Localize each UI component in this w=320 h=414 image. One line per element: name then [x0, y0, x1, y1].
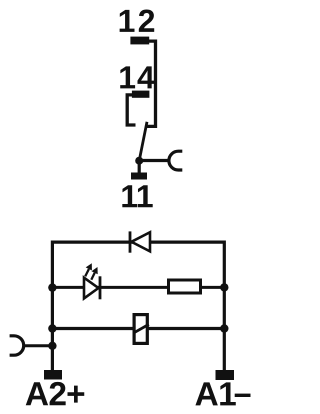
terminal 11: [131, 173, 147, 180]
terminal A2: [44, 370, 62, 380]
relay coil K1: [133, 315, 149, 344]
left bus: [51, 241, 54, 372]
LED row wire: [52, 286, 167, 289]
node right resistor row: [220, 283, 228, 291]
node right coil row: [220, 324, 228, 332]
node left coil row: [48, 324, 56, 332]
label 14: [120, 66, 154, 88]
LED: [84, 263, 100, 299]
wire node to socket arc: [139, 159, 168, 162]
wire arc to left bus: [24, 344, 52, 347]
label 12: [120, 10, 155, 32]
right bus: [223, 241, 226, 372]
LED arrows: [85, 269, 89, 276]
terminal 14: [132, 91, 150, 98]
label A2+: [26, 382, 85, 405]
wire resistor to right bus: [201, 286, 225, 289]
wire from 14 to switch: [127, 95, 135, 125]
switch arm (11 to 12 contact): [139, 122, 147, 161]
terminal A1: [216, 370, 235, 380]
label A1-: [195, 382, 235, 405]
diode D1 (freewheeling): [130, 231, 150, 252]
top wire with diode: [52, 241, 224, 244]
node left socket row: [48, 342, 56, 350]
socket arc left (opens left): [10, 336, 24, 355]
resistor R1: [169, 280, 201, 293]
node (common contact 11): [135, 157, 143, 165]
wire node to terminal 11: [138, 161, 141, 173]
label 11: [122, 185, 152, 207]
wire from 12 to switch: [147, 41, 156, 126]
socket arc right (opens right): [169, 151, 182, 170]
terminal 12: [130, 37, 149, 45]
node left LED row: [48, 283, 56, 291]
coil row wire: [52, 327, 224, 330]
